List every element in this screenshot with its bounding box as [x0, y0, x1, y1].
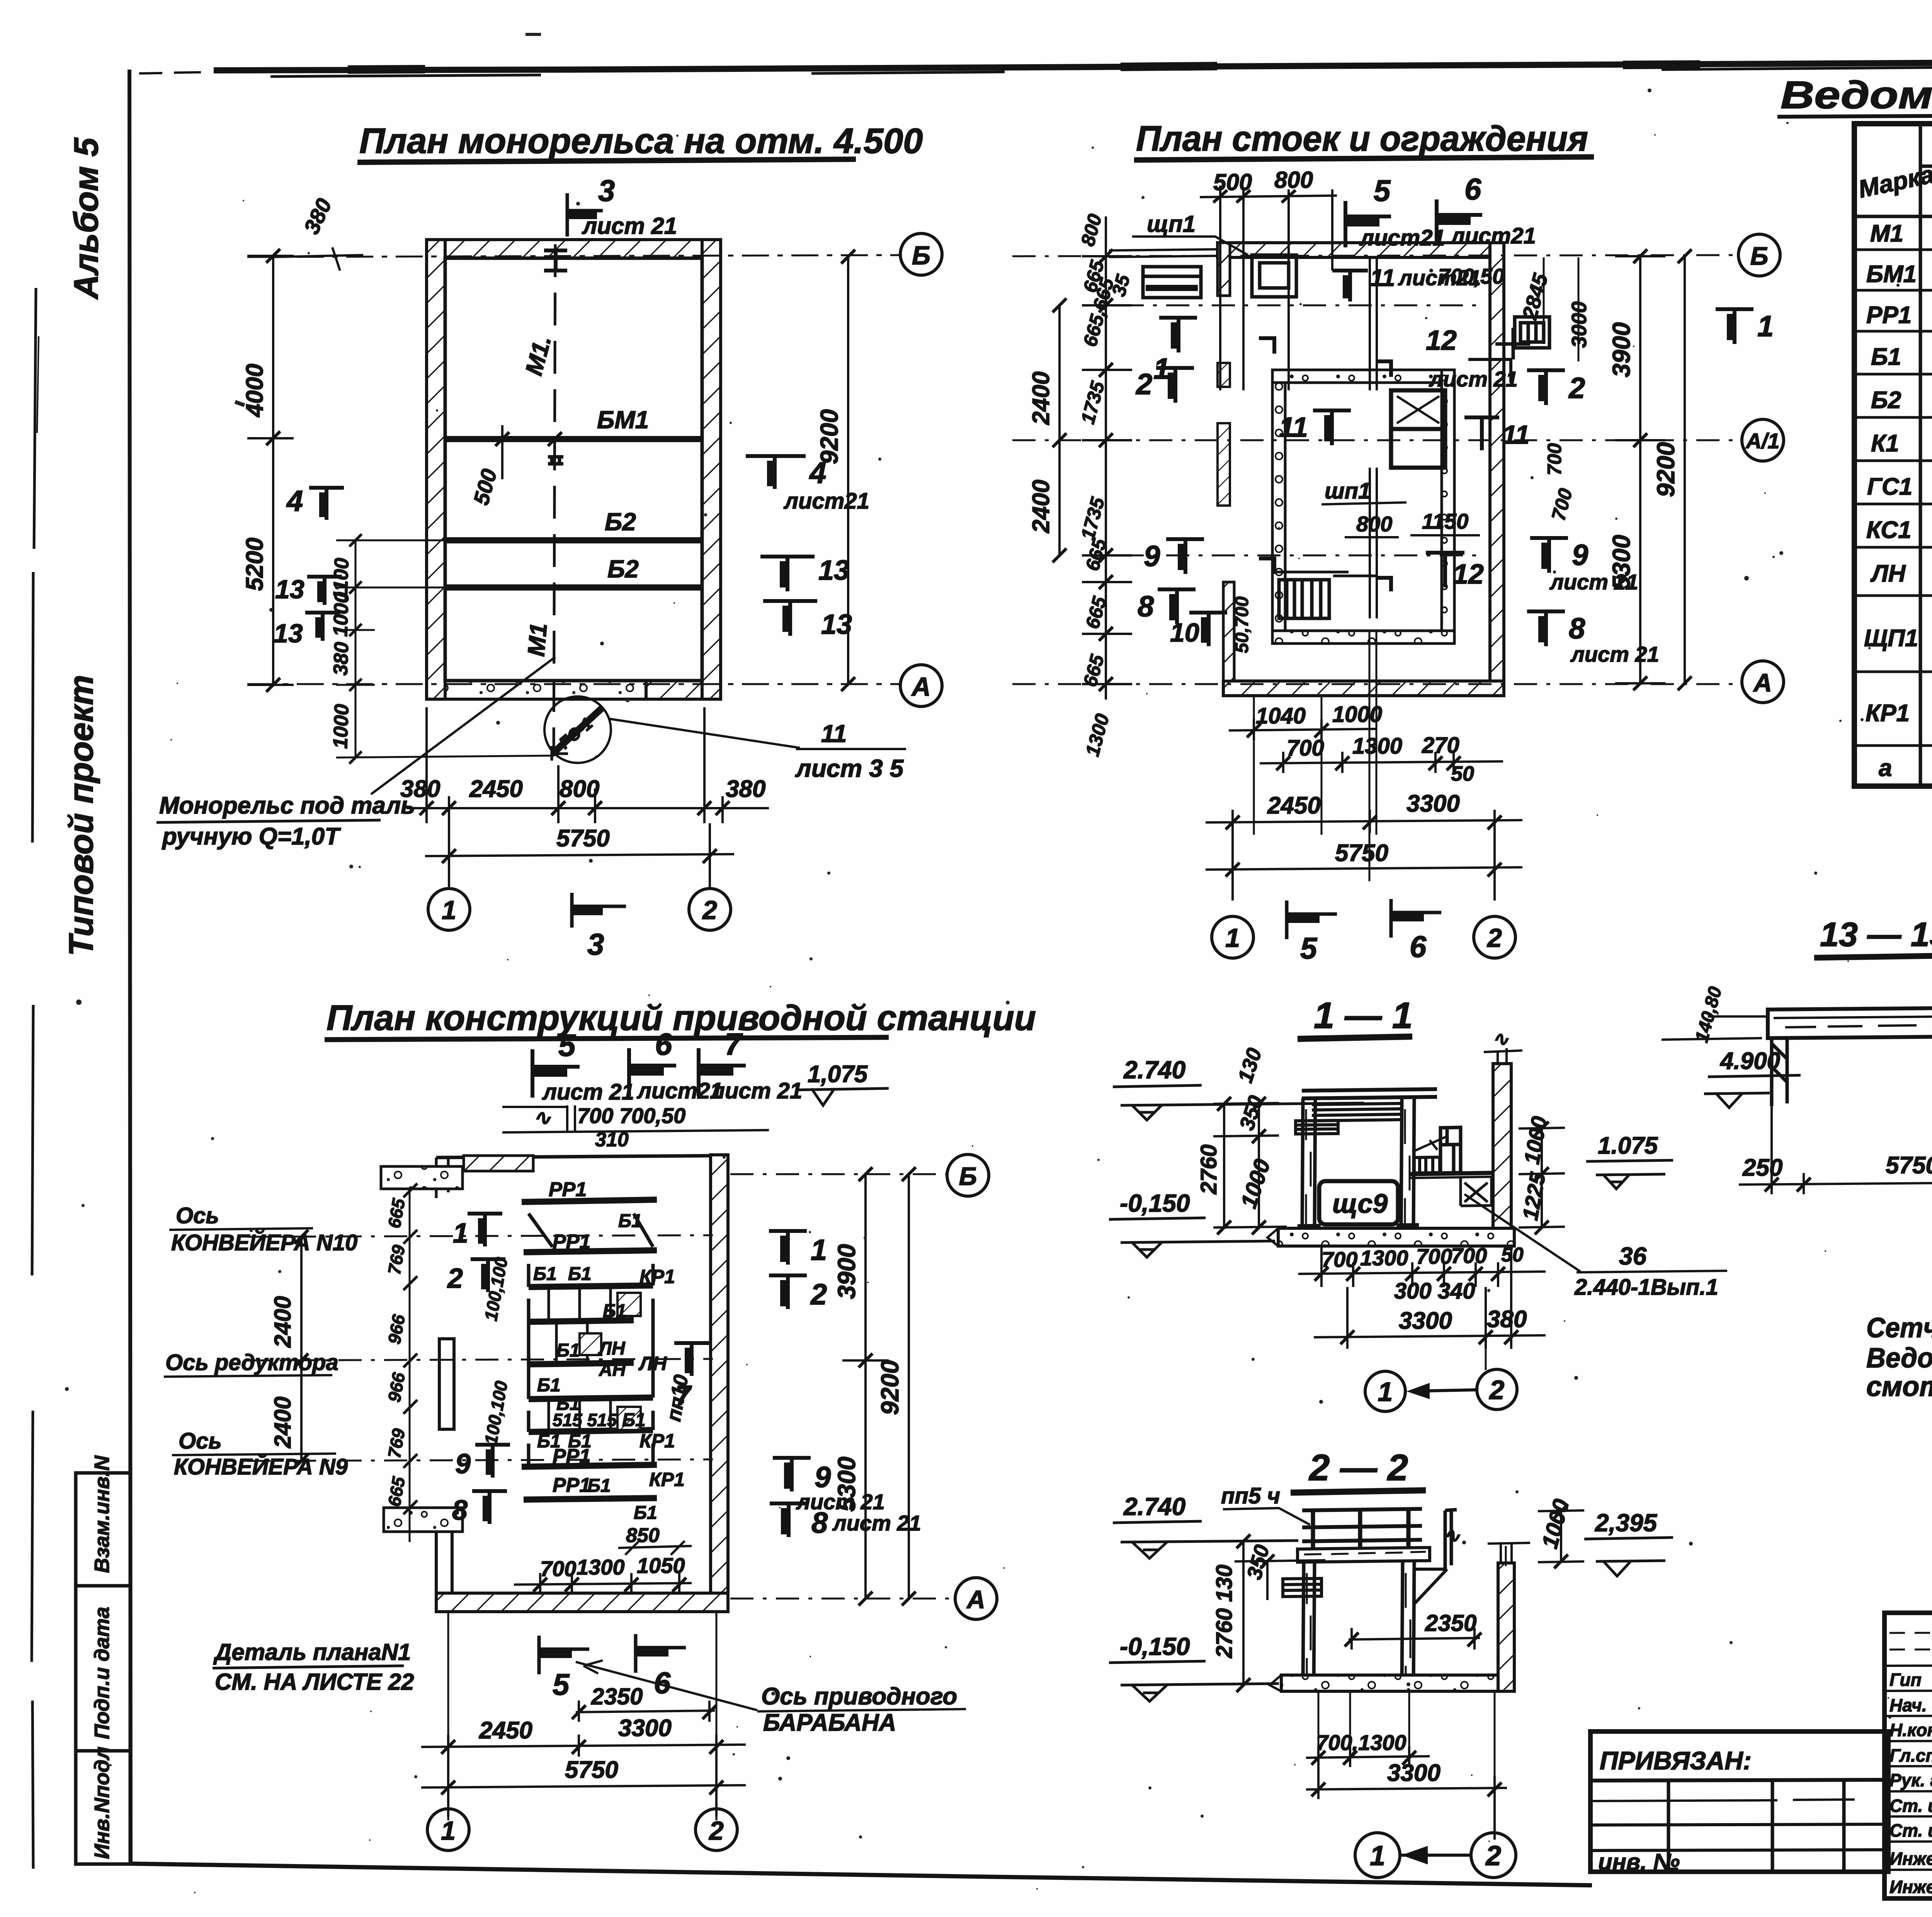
row lines: [1854, 250, 1932, 746]
svg-text:3000: 3000: [1568, 301, 1591, 348]
svg-text:5300: 5300: [833, 1457, 861, 1512]
left lower wall: [436, 1531, 452, 1612]
dim 9200 right: [847, 257, 849, 684]
svg-text:ЛН: ЛН: [638, 1353, 667, 1374]
svg-text:3: 3: [587, 927, 604, 961]
svg-text:2: 2: [708, 1816, 724, 1845]
svg-text:ПРИВЯЗАН:: ПРИВЯЗАН:: [1600, 1746, 1752, 1775]
svg-text:БМ1: БМ1: [597, 406, 649, 434]
right grid circles: [947, 1154, 989, 1196]
svg-text:13: 13: [821, 609, 852, 640]
svg-text:5300: 5300: [1607, 535, 1635, 590]
svg-text:1: 1: [1225, 923, 1240, 953]
svg-text:380: 380: [726, 776, 765, 802]
left concrete ledge 2: [384, 1508, 463, 1532]
svg-text:Б1: Б1: [533, 1264, 557, 1284]
svg-text:Деталь планаN1: Деталь планаN1: [213, 1639, 411, 1665]
svg-text:1: 1: [811, 1234, 827, 1267]
svg-text:3900: 3900: [833, 1244, 861, 1299]
bottom section mark 6: [636, 1634, 686, 1673]
svg-text:План стоек и ограждения: План стоек и ограждения: [1136, 119, 1588, 158]
svg-text:Ведомость элементов(к листам 2: Ведомость элементов(к листам 20,21): [1781, 73, 1932, 117]
svg-text:50,700: 50,700: [1232, 596, 1252, 653]
svg-text:850: 850: [626, 1524, 660, 1547]
T-mark 9 right with list21: [1530, 538, 1568, 573]
svg-text:КС1: КС1: [1866, 517, 1912, 543]
svg-text:2400: 2400: [270, 1296, 296, 1348]
hatched slot left small: [1218, 363, 1230, 387]
svg-text:∿: ∿: [1443, 1524, 1460, 1547]
privyazan box: [1590, 1731, 1888, 1872]
bottom dim 1040 1000: [1229, 719, 1376, 740]
T-mark 12 top right + leader: [1495, 328, 1530, 359]
svg-text:2: 2: [1135, 368, 1152, 401]
svg-text:РР1: РР1: [553, 1445, 590, 1468]
left margin stamp boxes: [76, 1473, 130, 1864]
svg-text:∿: ∿: [533, 1106, 551, 1129]
svg-text:1040: 1040: [1256, 703, 1306, 729]
svg-text:6: 6: [1464, 172, 1481, 206]
right side T marks: [769, 1231, 807, 1265]
svg-text:ГС1: ГС1: [1867, 473, 1912, 500]
svg-text:Б1: Б1: [622, 1410, 646, 1430]
bottom dim 2450 3300: [1206, 810, 1522, 833]
wall leader N: [1505, 1546, 1507, 1566]
svg-text:2: 2: [810, 1278, 827, 1311]
grid circle 1: [427, 1809, 469, 1851]
svg-text:щп1: щп1: [1147, 211, 1196, 237]
svg-text:700,1300: 700,1300: [1316, 1730, 1406, 1755]
svg-text:5: 5: [553, 1667, 570, 1701]
svg-text:КОНВЕЙЕРА N10: КОНВЕЙЕРА N10: [171, 1230, 357, 1255]
svg-text:План конструкций приводной ста: План конструкций приводной станции: [327, 998, 1036, 1038]
svg-text:9200: 9200: [1652, 442, 1680, 497]
svg-text:ЛН: ЛН: [1870, 560, 1906, 587]
svg-text:700: 700: [1287, 735, 1324, 761]
svg-text:Б1: Б1: [634, 1503, 657, 1523]
svg-text:Б1: Б1: [1871, 344, 1901, 370]
svg-text:План монорельса на отм. 4.500: План монорельса на отм. 4.500: [359, 121, 923, 161]
T-mark 11 right: [1464, 417, 1499, 450]
svg-text:5750: 5750: [1335, 840, 1388, 867]
svg-text:шп1: шп1: [1325, 478, 1371, 504]
svg-text:1300: 1300: [1360, 1246, 1408, 1270]
svg-text:РР1: РР1: [1866, 302, 1912, 329]
grid circle 2: [696, 1809, 737, 1851]
svg-text:3300: 3300: [1387, 1760, 1440, 1786]
svg-text:лист 21: лист 21: [1429, 367, 1518, 391]
platform: [1410, 1173, 1511, 1174]
bottom wall band: [1223, 681, 1504, 696]
svg-text:Б1: Б1: [568, 1264, 592, 1284]
svg-text:лист 21: лист 21: [582, 213, 677, 239]
monorail top symbol: [544, 250, 567, 271]
bottom dim 5750: [1206, 833, 1522, 901]
svg-text:-0,150: -0,150: [1120, 1633, 1190, 1660]
svg-text:9: 9: [815, 1461, 831, 1494]
vertical thin equipment lines from top: [1370, 257, 1377, 618]
bottom dim 700 1300 270 50: [1260, 752, 1503, 773]
svg-text:270: 270: [1422, 733, 1459, 758]
vertical column lines: [1920, 124, 1932, 786]
T-mark 8 right with list21: [1527, 611, 1565, 646]
svg-text:1300: 1300: [577, 1555, 625, 1579]
svg-text:Рук. гр.: Рук. гр.: [1889, 1770, 1932, 1790]
svg-text:2: 2: [1568, 372, 1585, 405]
bottom wall hatched: [436, 1593, 728, 1612]
svg-text:А: А: [1753, 668, 1772, 697]
equipment at 12: [1515, 317, 1549, 348]
grid circle A: [900, 665, 942, 707]
svg-text:смотрите на листе 21.: смотрите на листе 21.: [1866, 1371, 1932, 1402]
2400 chains left: [300, 1237, 303, 1461]
monorail lines above plan: [502, 1105, 769, 1132]
svg-text:1150: 1150: [1422, 509, 1468, 533]
hatched squares in machinery: [617, 1293, 641, 1316]
svg-text:6: 6: [1410, 930, 1427, 964]
svg-text:лист 21: лист 21: [1570, 642, 1659, 666]
svg-text:4: 4: [809, 456, 826, 490]
equipment in room right: [1391, 390, 1445, 468]
grid circle 2: [1474, 916, 1515, 958]
small detail at BM1/axis crossing: [548, 457, 563, 464]
svg-text:Б: Б: [912, 241, 930, 270]
svg-text:лист 21: лист 21: [710, 1078, 802, 1103]
svg-text:Б1: Б1: [618, 1211, 642, 1231]
svg-text:2: 2: [702, 896, 717, 925]
svg-text:КР1: КР1: [639, 1266, 675, 1287]
section mark 3 bottom: [572, 893, 626, 928]
svg-text:8: 8: [452, 1495, 468, 1526]
right wall hatched: [711, 1155, 728, 1611]
inner room walls speckled: [1272, 370, 1454, 644]
svg-text:БАРАБАНА: БАРАБАНА: [763, 1709, 896, 1736]
svg-text:700: 700: [540, 1556, 576, 1581]
section mark 4 right: [746, 456, 806, 489]
svg-text:Б1: Б1: [603, 1301, 626, 1321]
tall slot rect: [439, 1339, 454, 1429]
svg-text:700: 700: [1544, 443, 1565, 475]
hatched top-left wall piece: [464, 1156, 533, 1171]
svg-text:2760: 2760: [1196, 1144, 1221, 1195]
bottom section mark 6: [1391, 899, 1441, 938]
svg-text:5750: 5750: [565, 1757, 618, 1783]
svg-text:Ось приводного: Ось приводного: [761, 1683, 957, 1710]
axis dash-dot lines: [247, 1235, 713, 1237]
svg-text:Н.контр.: Н.контр.: [1889, 1720, 1932, 1740]
svg-text:Б2: Б2: [607, 555, 639, 583]
svg-text:1: 1: [1370, 1840, 1385, 1871]
svg-text:РР1: РР1: [553, 1474, 590, 1496]
svg-text:2450: 2450: [1267, 792, 1321, 819]
left dim chains: [1213, 1098, 1287, 1227]
header horizontal lines: [1854, 166, 1932, 216]
grid circle 2: [689, 889, 731, 930]
extension line left + level 4.900: [1662, 1016, 1768, 1040]
svg-text:8: 8: [1569, 612, 1585, 645]
svg-text:4.900: 4.900: [1719, 1048, 1780, 1074]
bottom section mark 5: [539, 1636, 589, 1674]
bottom dims 700 1300 1050: [514, 1573, 692, 1594]
svg-text:РР1: РР1: [549, 1178, 587, 1201]
right column: [1401, 1098, 1414, 1227]
T-mark 10: [1189, 613, 1227, 646]
motor on left column: [1283, 1578, 1321, 1597]
T-mark 11 inside room: [1313, 410, 1351, 445]
svg-text:515 515: 515 515: [553, 1410, 617, 1430]
grid line A: [247, 683, 900, 685]
left concrete ledge 1: [381, 1166, 463, 1189]
svg-text:5: 5: [1374, 174, 1391, 208]
svg-text:А: А: [911, 672, 930, 701]
svg-text:13: 13: [818, 555, 849, 586]
dims 250 5750 250: [1739, 1106, 1932, 1194]
svg-text:Ведомость элементов пп5 ч;пп10: Ведомость элементов пп5 ч;пп10 по серии …: [1866, 1343, 1932, 1374]
svg-text:Инженер: Инженер: [1889, 1877, 1932, 1897]
svg-text:лист 3 5: лист 3 5: [795, 754, 904, 782]
svg-text:2 — 2: 2 — 2: [1308, 1447, 1408, 1488]
grid circle 1: [428, 889, 470, 930]
svg-text:10: 10: [1170, 618, 1199, 647]
inner dim chain 1100/1000/380/1000: [336, 540, 554, 758]
svg-text:КР1: КР1: [649, 1469, 685, 1490]
T-mark 1 right outside: [1716, 309, 1753, 344]
svg-text:700: 700: [1321, 1247, 1357, 1272]
T marks left column: [468, 1214, 502, 1246]
svg-text:Ст. инж.: Ст. инж.: [1889, 1820, 1932, 1840]
13-13 beam: [1768, 1007, 1932, 1038]
svg-text:Б2: Б2: [1871, 387, 1901, 414]
section mark 5: [532, 1049, 580, 1098]
svg-text:2.740: 2.740: [1123, 1493, 1185, 1520]
equipment top-left 1: [1143, 267, 1201, 298]
svg-text:700,50: 700,50: [1438, 264, 1504, 288]
svg-text:5750: 5750: [1886, 1152, 1932, 1179]
section mark 3 top: [567, 193, 603, 237]
vertical leaders: [1318, 1691, 1495, 1776]
svg-text:лист21: лист21: [636, 1078, 723, 1103]
svg-text:М1: М1: [523, 622, 552, 657]
section marks 13/13: [760, 557, 815, 591]
svg-text:3900: 3900: [1607, 322, 1635, 377]
right wall band: [1490, 243, 1504, 687]
svg-text:380: 380: [1487, 1306, 1527, 1333]
grid circle 1: [1212, 916, 1253, 958]
svg-text:5: 5: [1300, 931, 1318, 965]
right column: [1402, 1562, 1414, 1685]
svg-text:1000: 1000: [1332, 702, 1382, 727]
svg-text:2: 2: [1489, 1375, 1505, 1405]
svg-text:-0,150: -0,150: [1120, 1189, 1190, 1217]
dim 2450 3300: [421, 1735, 746, 1757]
svg-text:лист21: лист21: [1450, 223, 1536, 249]
floor slab: [1281, 1675, 1501, 1691]
svg-text:Б1: Б1: [587, 1476, 611, 1496]
svg-text:2: 2: [1486, 923, 1502, 953]
svg-text:пп5 ч: пп5 ч: [1221, 1483, 1280, 1508]
right wall hatched: [1498, 1563, 1514, 1691]
svg-text:11: 11: [1370, 265, 1395, 291]
section mark 6 top: [1437, 199, 1482, 246]
left dim chain rotated values: [409, 1190, 411, 1542]
svg-text:АН: АН: [599, 1360, 626, 1380]
svg-text:11: 11: [1502, 420, 1530, 449]
svg-text:КР1: КР1: [639, 1430, 675, 1452]
shchs9 box: [1319, 1181, 1398, 1224]
svg-text:Б1: Б1: [537, 1375, 561, 1396]
svg-text:50: 50: [1451, 762, 1474, 785]
svg-text:7: 7: [724, 1027, 743, 1061]
section mark 6: [629, 1048, 676, 1096]
right grid circles: [1738, 234, 1780, 276]
motor left: [1296, 1120, 1338, 1134]
svg-text:2450: 2450: [469, 776, 523, 802]
svg-text:5200: 5200: [241, 538, 268, 591]
svg-text:310: 310: [595, 1129, 629, 1151]
svg-text:800: 800: [1274, 167, 1313, 193]
svg-text:2: 2: [447, 1263, 463, 1294]
top wall line: [436, 1156, 728, 1158]
svg-text:2760 130: 2760 130: [1212, 1565, 1237, 1658]
svg-text:КОНВЕЙЕРА N9: КОНВЕЙЕРА N9: [174, 1454, 348, 1479]
svg-text:Ось: Ось: [176, 1203, 219, 1228]
svg-text:4000: 4000: [241, 364, 268, 418]
leader from monorail text to axis: [371, 657, 555, 794]
svg-text:700 700,50: 700 700,50: [577, 1103, 685, 1128]
svg-text:щс9: щс9: [1332, 1188, 1388, 1219]
svg-text:13: 13: [274, 619, 303, 648]
svg-text:Монорельс под таль: Монорельс под таль: [159, 792, 415, 819]
svg-text:380: 380: [400, 776, 440, 802]
svg-text:1 — 1: 1 — 1: [1314, 995, 1413, 1036]
svg-text:а: а: [1879, 755, 1892, 781]
svg-text:СМ. НА ЛИСТЕ 22: СМ. НА ЛИСТЕ 22: [215, 1669, 414, 1695]
svg-text:800: 800: [1356, 512, 1392, 536]
svg-text:8: 8: [811, 1507, 828, 1539]
T-mark 9: [1166, 539, 1204, 574]
monorail axis M1 dashed: [554, 244, 555, 754]
svg-text:лист21: лист21: [783, 489, 869, 514]
svg-text:2350: 2350: [1425, 1610, 1476, 1636]
inner outline: [445, 258, 702, 681]
beam B2 lower: [445, 584, 702, 591]
bottom dim line 1: [406, 707, 769, 823]
svg-text:12: 12: [1426, 325, 1457, 356]
svg-text:А/1: А/1: [1745, 429, 1779, 453]
right dim 9200: [1684, 256, 1686, 683]
svg-text:Сетчатые щиты щс6÷щс11 смотрит: Сетчатые щиты щс6÷щс11 смотрите на листе…: [1866, 1313, 1932, 1343]
T mark 7 inside right: [674, 1343, 709, 1376]
svg-text:Альбом 5: Альбом 5: [67, 137, 105, 300]
right dims 1000 1225: [1519, 1128, 1565, 1227]
svg-text:2: 2: [1485, 1840, 1501, 1871]
svg-text:9: 9: [1572, 539, 1588, 572]
dim 2350: [576, 1701, 715, 1722]
inner frame left vertical: [129, 70, 131, 1864]
dims 2845 3000 inside right: [1544, 257, 1578, 361]
svg-text:Подп.и дата: Подп.и дата: [90, 1607, 114, 1739]
T-mark 2: [1156, 368, 1194, 403]
svg-text:12: 12: [1453, 559, 1484, 590]
grid circle B: [900, 233, 942, 275]
svg-text:1: 1: [441, 1816, 456, 1845]
right dims 3900/5300 and 9200: [842, 1174, 889, 1599]
svg-text:2350: 2350: [591, 1684, 643, 1709]
left leg: [1772, 1038, 1787, 1106]
floor slab: [1278, 1228, 1514, 1246]
svg-text:2400: 2400: [1028, 371, 1054, 425]
bottom equipment in room: [1279, 580, 1329, 618]
svg-text:Б: Б: [1750, 242, 1769, 270]
svg-text:13: 13: [275, 575, 304, 604]
svg-text:7: 7: [675, 1380, 692, 1411]
leader to 11 / list 35: [610, 719, 906, 749]
small corner brackets: [1259, 338, 1391, 591]
left outer sheet edge (broken scan line): [32, 288, 36, 1869]
wall hatched: [1493, 1064, 1511, 1243]
svg-text:Б1: Б1: [556, 1340, 580, 1361]
bottom border: [131, 1864, 1592, 1885]
leader 36: [1464, 1194, 1727, 1272]
section mark 13 left lower: [305, 613, 340, 641]
top wall band hatched: [1218, 243, 1504, 257]
svg-text:А: А: [966, 1585, 985, 1614]
detail circle GS-1: [544, 696, 611, 763]
left column: [1303, 1562, 1315, 1685]
channel right: [1445, 1510, 1457, 1570]
2400 2400 chain: [1058, 305, 1061, 555]
table outer border: [1854, 124, 1932, 786]
svg-text:9: 9: [455, 1449, 471, 1479]
svg-text:6: 6: [655, 1027, 672, 1061]
svg-text:800: 800: [560, 776, 599, 802]
svg-text:3300: 3300: [618, 1715, 672, 1742]
bracket diagonal: [1414, 1569, 1447, 1604]
svg-text:1,075: 1,075: [808, 1061, 868, 1088]
signature table: [1884, 1613, 1932, 1898]
hatched slot left tall: [1218, 423, 1230, 506]
svg-text:1300: 1300: [1352, 734, 1402, 759]
wall top (hatched): [427, 240, 721, 699]
svg-text:Б2: Б2: [605, 508, 636, 536]
svg-text:БМ1: БМ1: [1866, 261, 1917, 288]
svg-text:К1: К1: [1871, 430, 1899, 457]
dim 5750: [421, 1757, 746, 1817]
svg-text:лист 21: лист 21: [542, 1079, 634, 1105]
svg-text:2450: 2450: [479, 1717, 532, 1744]
svg-text:ручную Q=1,0Т: ручную Q=1,0Т: [162, 823, 341, 850]
svg-text:КР1: КР1: [1866, 700, 1910, 727]
beam B2: [445, 537, 702, 543]
svg-text:13 — 13: 13 — 13: [1820, 915, 1932, 953]
leader lines down from plan: [1254, 631, 1376, 881]
T-mark 12 lower: [1426, 553, 1464, 587]
right dim chain 3900/5300: [1615, 256, 1665, 683]
bottom-left wall column: [1223, 582, 1234, 681]
svg-text:3300: 3300: [1399, 1308, 1452, 1334]
svg-text:380: 380: [330, 642, 353, 676]
svg-text:1: 1: [1378, 1377, 1393, 1407]
svg-text:Ось редуктора: Ось редуктора: [165, 1350, 338, 1375]
svg-text:1000: 1000: [329, 704, 353, 749]
svg-text:300 340: 300 340: [1394, 1279, 1475, 1304]
beam BM1: [445, 436, 702, 442]
svg-text:лист21: лист21: [1359, 225, 1445, 250]
svg-text:Инв.Nподл: Инв.Nподл: [90, 1747, 114, 1859]
svg-text:Б: Б: [959, 1162, 977, 1190]
svg-text:Ось: Ось: [179, 1428, 222, 1454]
dim 3300: [1306, 1767, 1507, 1840]
